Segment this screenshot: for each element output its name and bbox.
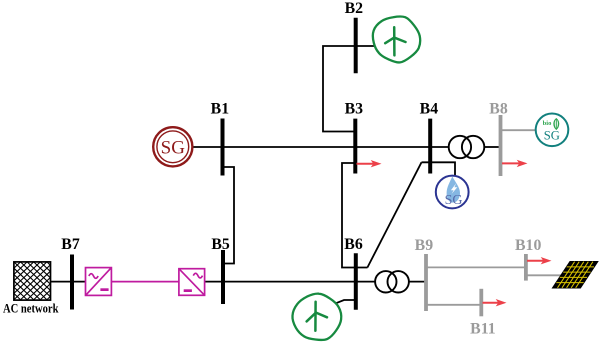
svg-text:B5: B5 xyxy=(211,236,230,253)
svg-text:B7: B7 xyxy=(61,236,80,253)
svg-text:B4: B4 xyxy=(420,101,439,118)
svg-text:B6: B6 xyxy=(344,236,363,253)
svg-text:bio: bio xyxy=(543,120,552,127)
svg-text:B11: B11 xyxy=(470,321,496,338)
svg-text:B8: B8 xyxy=(489,101,508,118)
svg-text:SG: SG xyxy=(445,193,463,208)
svg-text:B9: B9 xyxy=(415,237,434,254)
svg-text:B2: B2 xyxy=(345,0,364,17)
svg-text:SG: SG xyxy=(161,138,186,159)
svg-text:B3: B3 xyxy=(345,101,364,118)
svg-text:B1: B1 xyxy=(211,101,230,118)
svg-text:SG: SG xyxy=(544,129,560,143)
svg-text:B10: B10 xyxy=(515,237,541,254)
svg-text:AC network: AC network xyxy=(3,301,59,316)
